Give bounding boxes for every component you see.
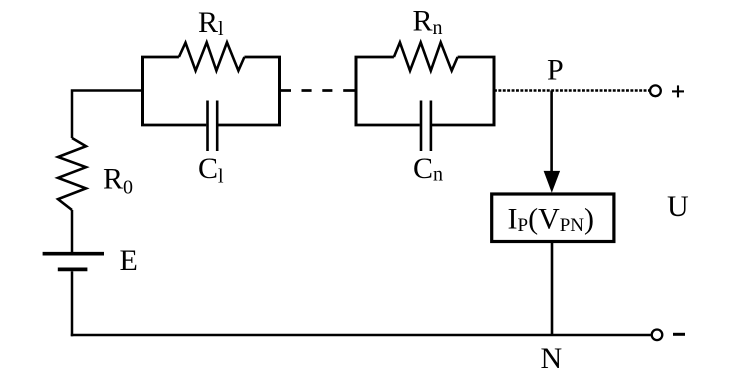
svg-text:P: P — [547, 54, 564, 87]
svg-text:U: U — [667, 190, 689, 223]
svg-text:R0: R0 — [103, 162, 133, 198]
battery E — [43, 254, 104, 270]
wire — [71, 271, 74, 336]
wire — [551, 242, 554, 336]
svg-text:E: E — [120, 244, 138, 277]
svg-text:Cl: Cl — [198, 152, 224, 187]
RC block 1 outline — [141, 57, 281, 125]
terminal + — [650, 85, 684, 97]
wire — [71, 210, 74, 252]
wire arrow into current source — [544, 91, 561, 193]
resistor R1 — [179, 42, 245, 70]
svg-text:Rl: Rl — [198, 6, 224, 40]
svg-text:Cn: Cn — [413, 152, 443, 186]
current source box IP(VPN) — [492, 194, 614, 242]
RC block n outline — [355, 57, 496, 125]
wire — [72, 91, 143, 139]
capacitor Cn — [421, 101, 431, 152]
wire bottom rail — [71, 334, 651, 337]
wire dotted to + terminal — [494, 89, 649, 91]
wire dashed link — [280, 89, 357, 92]
svg-text:N: N — [541, 342, 563, 375]
terminal - — [652, 330, 685, 341]
resistor Rn — [394, 42, 458, 70]
resistor R0 — [58, 138, 86, 210]
capacitor C1 — [208, 101, 218, 152]
svg-text:Rn: Rn — [413, 5, 443, 39]
